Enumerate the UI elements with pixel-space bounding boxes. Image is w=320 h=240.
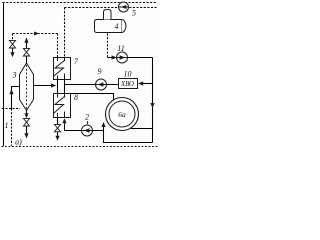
svg-text:5: 5 [132,9,136,18]
svg-text:3: 3 [12,71,17,80]
svg-text:8: 8 [74,93,78,102]
svg-text:4: 4 [115,22,119,31]
svg-text:6а: 6а [118,110,126,119]
svg-text:1: 1 [5,121,9,130]
svg-text:2: 2 [85,113,89,122]
svg-text:9: 9 [98,67,102,76]
svg-text:11: 11 [117,44,124,53]
svg-text:10: 10 [124,70,132,79]
svg-text:а): а) [15,138,22,147]
svg-text:ХВО: ХВО [120,81,134,88]
